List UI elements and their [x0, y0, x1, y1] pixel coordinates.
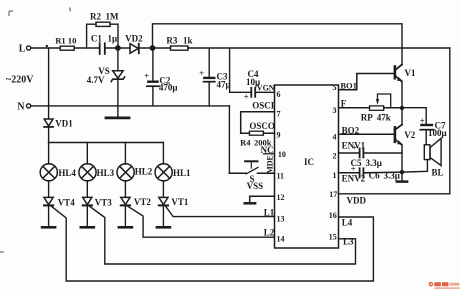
svg-text:V1: V1: [405, 68, 416, 78]
svg-text:N: N: [17, 102, 25, 113]
svg-text:BO2: BO2: [342, 125, 360, 135]
svg-text:R1: R1: [55, 35, 66, 45]
svg-text:BL: BL: [432, 168, 444, 178]
svg-text:+: +: [199, 68, 204, 78]
svg-text:VSS: VSS: [247, 181, 264, 191]
svg-text:47μ: 47μ: [217, 80, 231, 90]
svg-text:VGN: VGN: [257, 84, 275, 93]
svg-text:F: F: [341, 98, 347, 108]
svg-text:+: +: [351, 164, 356, 174]
svg-text:+: +: [352, 143, 357, 153]
svg-text:HL2: HL2: [135, 167, 153, 177]
svg-text:VD2: VD2: [125, 33, 143, 43]
svg-text:ENV2: ENV2: [342, 173, 366, 183]
svg-text:14: 14: [277, 235, 285, 244]
svg-text:4.7V: 4.7V: [87, 75, 105, 85]
svg-text:V2: V2: [404, 130, 415, 140]
svg-text:HL1: HL1: [173, 168, 191, 178]
svg-text:RP: RP: [361, 112, 373, 122]
svg-text:R4: R4: [240, 138, 251, 148]
svg-text:10: 10: [68, 35, 77, 45]
svg-text:11: 11: [277, 172, 285, 181]
svg-text:13: 13: [277, 215, 285, 224]
svg-text:L3: L3: [343, 236, 354, 246]
svg-text:+: +: [244, 92, 249, 102]
svg-text:OSCI: OSCI: [252, 101, 275, 111]
svg-text:47k: 47k: [377, 112, 391, 122]
svg-text:BO1: BO1: [340, 81, 357, 91]
svg-text:VD1: VD1: [55, 118, 73, 128]
svg-text:1: 1: [333, 171, 337, 180]
svg-text:VT3: VT3: [95, 197, 113, 207]
svg-text:L1: L1: [264, 208, 275, 218]
svg-text:1M: 1M: [106, 12, 120, 22]
svg-text:HL4: HL4: [58, 168, 76, 178]
svg-text:9: 9: [277, 131, 281, 140]
svg-text:~220V: ~220V: [6, 75, 34, 86]
svg-text:100μ: 100μ: [428, 128, 447, 138]
svg-text:3.3μ: 3.3μ: [366, 158, 382, 168]
svg-text:2: 2: [333, 151, 337, 160]
svg-text:MDE: MDE: [266, 155, 275, 174]
svg-text:3.3μ: 3.3μ: [384, 170, 400, 180]
svg-text:HL3: HL3: [97, 168, 115, 178]
svg-text:15: 15: [329, 233, 337, 242]
svg-text:10: 10: [278, 150, 286, 159]
svg-text:4: 4: [333, 132, 337, 141]
svg-text:470μ: 470μ: [159, 83, 178, 93]
svg-text:17: 17: [329, 190, 337, 199]
svg-text:VT1: VT1: [171, 197, 189, 207]
svg-text:R3: R3: [166, 35, 177, 45]
svg-text:5: 5: [333, 83, 337, 92]
svg-text:OSCO: OSCO: [249, 121, 275, 131]
svg-text:3: 3: [333, 106, 337, 115]
svg-text:6: 6: [277, 90, 281, 99]
svg-text:+: +: [420, 115, 425, 125]
svg-text:12: 12: [277, 193, 285, 202]
svg-text:1k: 1k: [183, 35, 193, 45]
svg-text:C6: C6: [369, 170, 380, 180]
svg-text:VT4: VT4: [58, 197, 76, 207]
svg-text:L: L: [19, 43, 26, 54]
svg-text:VT2: VT2: [134, 197, 152, 207]
svg-text:L4: L4: [342, 217, 353, 227]
svg-text:C1: C1: [91, 34, 102, 44]
svg-text:L2: L2: [264, 228, 275, 238]
svg-text:1μ: 1μ: [108, 34, 118, 44]
svg-text:NC: NC: [261, 145, 274, 155]
svg-text:+: +: [144, 71, 149, 81]
svg-text:R2: R2: [90, 12, 101, 22]
svg-text:VDD: VDD: [347, 196, 367, 206]
svg-text:16: 16: [329, 211, 337, 220]
svg-text:7: 7: [277, 110, 281, 119]
svg-text:IC: IC: [304, 157, 314, 167]
